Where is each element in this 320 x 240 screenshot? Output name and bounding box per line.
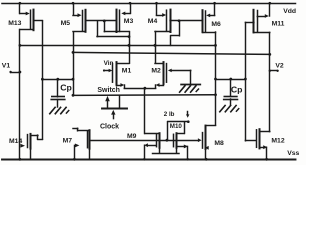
svg-text:M3: M3 [124, 18, 134, 25]
svg-text:M13: M13 [8, 20, 21, 27]
svg-text:V1: V1 [2, 63, 11, 70]
svg-text:M1: M1 [122, 67, 132, 74]
svg-text:M8: M8 [214, 140, 224, 147]
svg-text:M12: M12 [271, 137, 284, 144]
svg-text:Vss: Vss [287, 150, 299, 157]
svg-text:M14: M14 [9, 138, 22, 145]
svg-text:M6: M6 [211, 21, 221, 28]
svg-text:2 Ib: 2 Ib [164, 111, 175, 118]
svg-text:M7: M7 [63, 138, 73, 145]
svg-text:M5: M5 [61, 20, 71, 27]
svg-text:V2: V2 [275, 63, 284, 70]
svg-text:M4: M4 [148, 18, 158, 25]
svg-text:Cp: Cp [60, 83, 72, 93]
svg-text:Vdd: Vdd [283, 8, 296, 15]
svg-text:Clock: Clock [100, 124, 119, 131]
svg-text:M2: M2 [151, 67, 161, 74]
svg-text:Cp: Cp [231, 85, 243, 95]
svg-text:M10: M10 [170, 123, 183, 130]
svg-text:M11: M11 [272, 20, 285, 27]
svg-text:M9: M9 [127, 133, 137, 140]
svg-text:Switch: Switch [97, 87, 120, 94]
